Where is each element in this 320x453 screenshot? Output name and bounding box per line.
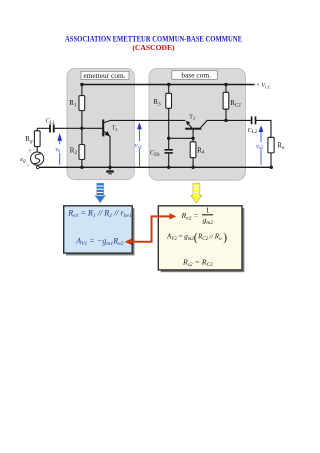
svg-text:emetteur com.: emetteur com.: [83, 71, 125, 80]
formula box 1 (blue): [64, 206, 135, 256]
wire collector T2 to CL2: [207, 119, 252, 121]
resistor RC2: [223, 85, 241, 121]
wire base row: [169, 137, 193, 139]
resistor R1: [69, 85, 84, 129]
wire bottom rail: [38, 166, 272, 168]
node base T1: [80, 127, 83, 130]
node VCC-RC2: [224, 83, 227, 86]
node base-R4: [191, 137, 194, 140]
transistor T1: [82, 120, 118, 137]
node R3-CD1: [167, 137, 170, 140]
arrow ve: [55, 133, 62, 165]
svg-text:=: =: [179, 233, 183, 241]
capacitor CL1: [46, 118, 56, 133]
node CD1 rail: [167, 166, 170, 169]
formula box 2 (yellow): [158, 206, 244, 272]
resistor R4: [190, 138, 205, 167]
source eg: [20, 149, 44, 170]
wire CL2 to Ru: [256, 120, 271, 137]
node VCC-R1: [80, 83, 83, 86]
node R2 bottom: [80, 166, 83, 169]
svg-text:(CASCODE): (CASCODE): [132, 43, 175, 52]
capacitor CL2: [248, 116, 258, 135]
label emetteur com.: [81, 71, 129, 80]
svg-text:T1: T1: [112, 126, 118, 132]
striped yellow arrow down: [191, 183, 202, 203]
resistor Rg: [25, 128, 40, 152]
wire emitter T1 down: [109, 136, 111, 168]
stage box base commune: [149, 68, 245, 180]
svg-text:): ): [223, 232, 227, 244]
wire VCC rail: [82, 84, 255, 86]
wire CL1 to base node: [55, 127, 82, 129]
resistor R2: [70, 128, 85, 167]
arrow vs1: [135, 123, 142, 167]
svg-text:1: 1: [206, 206, 210, 215]
svg-text:T2: T2: [189, 115, 195, 121]
striped blue arrow down: [95, 183, 106, 203]
stage box emetteur commun: [67, 68, 134, 179]
wire collector T1 to emitter T2: [110, 119, 185, 121]
formula Re2: [181, 206, 214, 227]
wire input row: [37, 127, 49, 129]
arrow vs2: [256, 125, 264, 165]
transistor T2: [185, 115, 207, 139]
ground: [106, 167, 114, 174]
svg-text:-: -: [27, 163, 29, 169]
svg-text:base com.: base com.: [181, 71, 211, 80]
formula Av2: [166, 232, 227, 244]
node collector T2: [224, 119, 227, 122]
node Ru rail: [270, 166, 273, 169]
node R4 rail: [191, 166, 194, 169]
capacitor CD1: [150, 138, 173, 167]
resistor Ru: [268, 137, 285, 167]
node emitter T1 rail: [108, 166, 111, 169]
resistor R3: [153, 85, 171, 139]
red connector arrow: [125, 213, 177, 245]
label base com.: [172, 71, 217, 80]
node VCC-R3: [167, 83, 170, 86]
